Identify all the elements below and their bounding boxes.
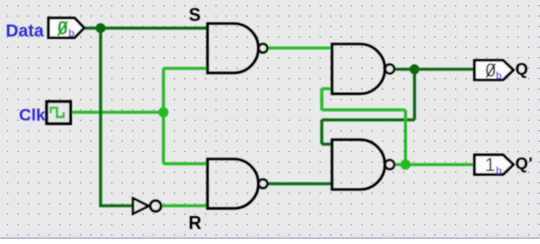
wire node B vertical branch (high)	[162, 68, 165, 163]
wire Q' feedback up (high)	[404, 110, 407, 165]
node A junction dot	[96, 23, 106, 33]
wire S-gate output to Q-gate input (high)	[267, 47, 332, 50]
input pin Data body	[49, 18, 85, 38]
svg-text:1: 1	[485, 154, 495, 175]
NAND gate U2 (R gate) body	[208, 159, 259, 208]
clock waveform symbol	[51, 108, 64, 117]
wire Q feedback across (low)	[322, 118, 415, 121]
node Q junction dot	[410, 64, 420, 74]
wire Q-gate output to pin Q (low)	[394, 68, 476, 71]
wire into inverter input (low)	[99, 204, 133, 207]
value 0b in Q pin	[485, 60, 501, 83]
wire Data pin to node A (low)	[83, 27, 208, 30]
inverter (NOT gate) triangle	[133, 198, 149, 213]
svg-text:R: R	[189, 213, 202, 233]
wire Q feedback down (low)	[413, 69, 416, 120]
wire Clk to node B (high)	[71, 111, 164, 114]
NAND gate U1 output bubble	[259, 44, 268, 53]
svg-text:S: S	[189, 5, 201, 25]
wire Q feedback down-left (low)	[320, 120, 323, 144]
wire Q' feedback into Q-gate (high)	[322, 87, 333, 90]
wire Q'-gate output to pin Q' (high)	[394, 163, 476, 166]
wire node A down to inverter (low)	[99, 28, 102, 206]
svg-text:Q': Q'	[515, 155, 533, 173]
wire R-gate output to Q'-gate input (low)	[267, 182, 332, 185]
svg-text:Clk: Clk	[19, 106, 46, 125]
svg-text:b: b	[496, 166, 502, 177]
wire Q feedback into Q'-gate (low)	[322, 143, 333, 146]
NAND gate U2 output bubble	[259, 179, 268, 188]
svg-text:b: b	[68, 27, 74, 39]
node B junction dot	[158, 107, 168, 117]
wire Q' feedback across (high)	[322, 108, 406, 111]
wire Q' feedback up-left (high)	[320, 89, 323, 110]
output pin Q' body	[475, 155, 514, 175]
svg-text:Q: Q	[515, 61, 528, 79]
wire inverter output to R gate (high)	[161, 204, 208, 207]
svg-text:Data: Data	[6, 20, 44, 40]
NAND gate U3 output bubble	[385, 64, 394, 73]
svg-text:b: b	[496, 71, 502, 82]
NAND gate U1 (S gate) body	[208, 24, 259, 73]
NAND gate U4 output bubble	[385, 160, 394, 169]
output pin Q body	[475, 60, 514, 80]
NAND gate U3 (Q gate) body	[332, 44, 385, 94]
wire clock branch to R gate input (high)	[163, 162, 207, 165]
inverter output bubble	[150, 201, 161, 212]
NAND gate U4 (Q' gate) body	[332, 140, 385, 190]
node Q' junction dot	[400, 159, 410, 169]
wire clock branch to S gate input (high)	[163, 67, 207, 70]
value 0b in Data pin	[57, 19, 74, 40]
value 1b in Q' pin	[485, 154, 502, 177]
clock input Clk body	[47, 102, 71, 124]
